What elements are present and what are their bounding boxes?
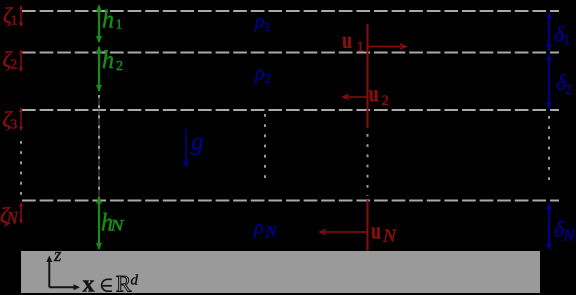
svg-text:N: N bbox=[563, 226, 576, 245]
svg-text:1: 1 bbox=[11, 14, 18, 29]
svg-text:2: 2 bbox=[565, 83, 572, 98]
svg-text:N: N bbox=[382, 226, 397, 246]
svg-text:u: u bbox=[371, 219, 381, 245]
svg-text:x: x bbox=[83, 272, 95, 295]
svg-text:2: 2 bbox=[265, 71, 272, 86]
svg-text:ρ: ρ bbox=[254, 11, 265, 33]
svg-text:u: u bbox=[369, 81, 379, 107]
svg-text:ρ: ρ bbox=[253, 217, 264, 239]
svg-text:N: N bbox=[109, 218, 125, 235]
svg-text:2: 2 bbox=[116, 59, 123, 74]
svg-text:N: N bbox=[6, 208, 19, 228]
svg-text:2: 2 bbox=[10, 58, 17, 73]
svg-text:g: g bbox=[191, 129, 204, 156]
svg-text:h: h bbox=[102, 47, 114, 74]
svg-text:u: u bbox=[342, 28, 352, 54]
svg-text:1: 1 bbox=[264, 19, 271, 34]
svg-text:N: N bbox=[265, 222, 279, 241]
svg-text:1: 1 bbox=[357, 39, 365, 55]
svg-text:1: 1 bbox=[563, 33, 570, 48]
svg-text:d: d bbox=[131, 273, 139, 289]
svg-text:2: 2 bbox=[382, 93, 390, 109]
svg-text:ρ: ρ bbox=[254, 63, 265, 85]
svg-text:1: 1 bbox=[116, 18, 123, 33]
svg-text:h: h bbox=[102, 6, 114, 33]
svg-text:z: z bbox=[53, 245, 62, 266]
svg-text:3: 3 bbox=[10, 118, 17, 133]
